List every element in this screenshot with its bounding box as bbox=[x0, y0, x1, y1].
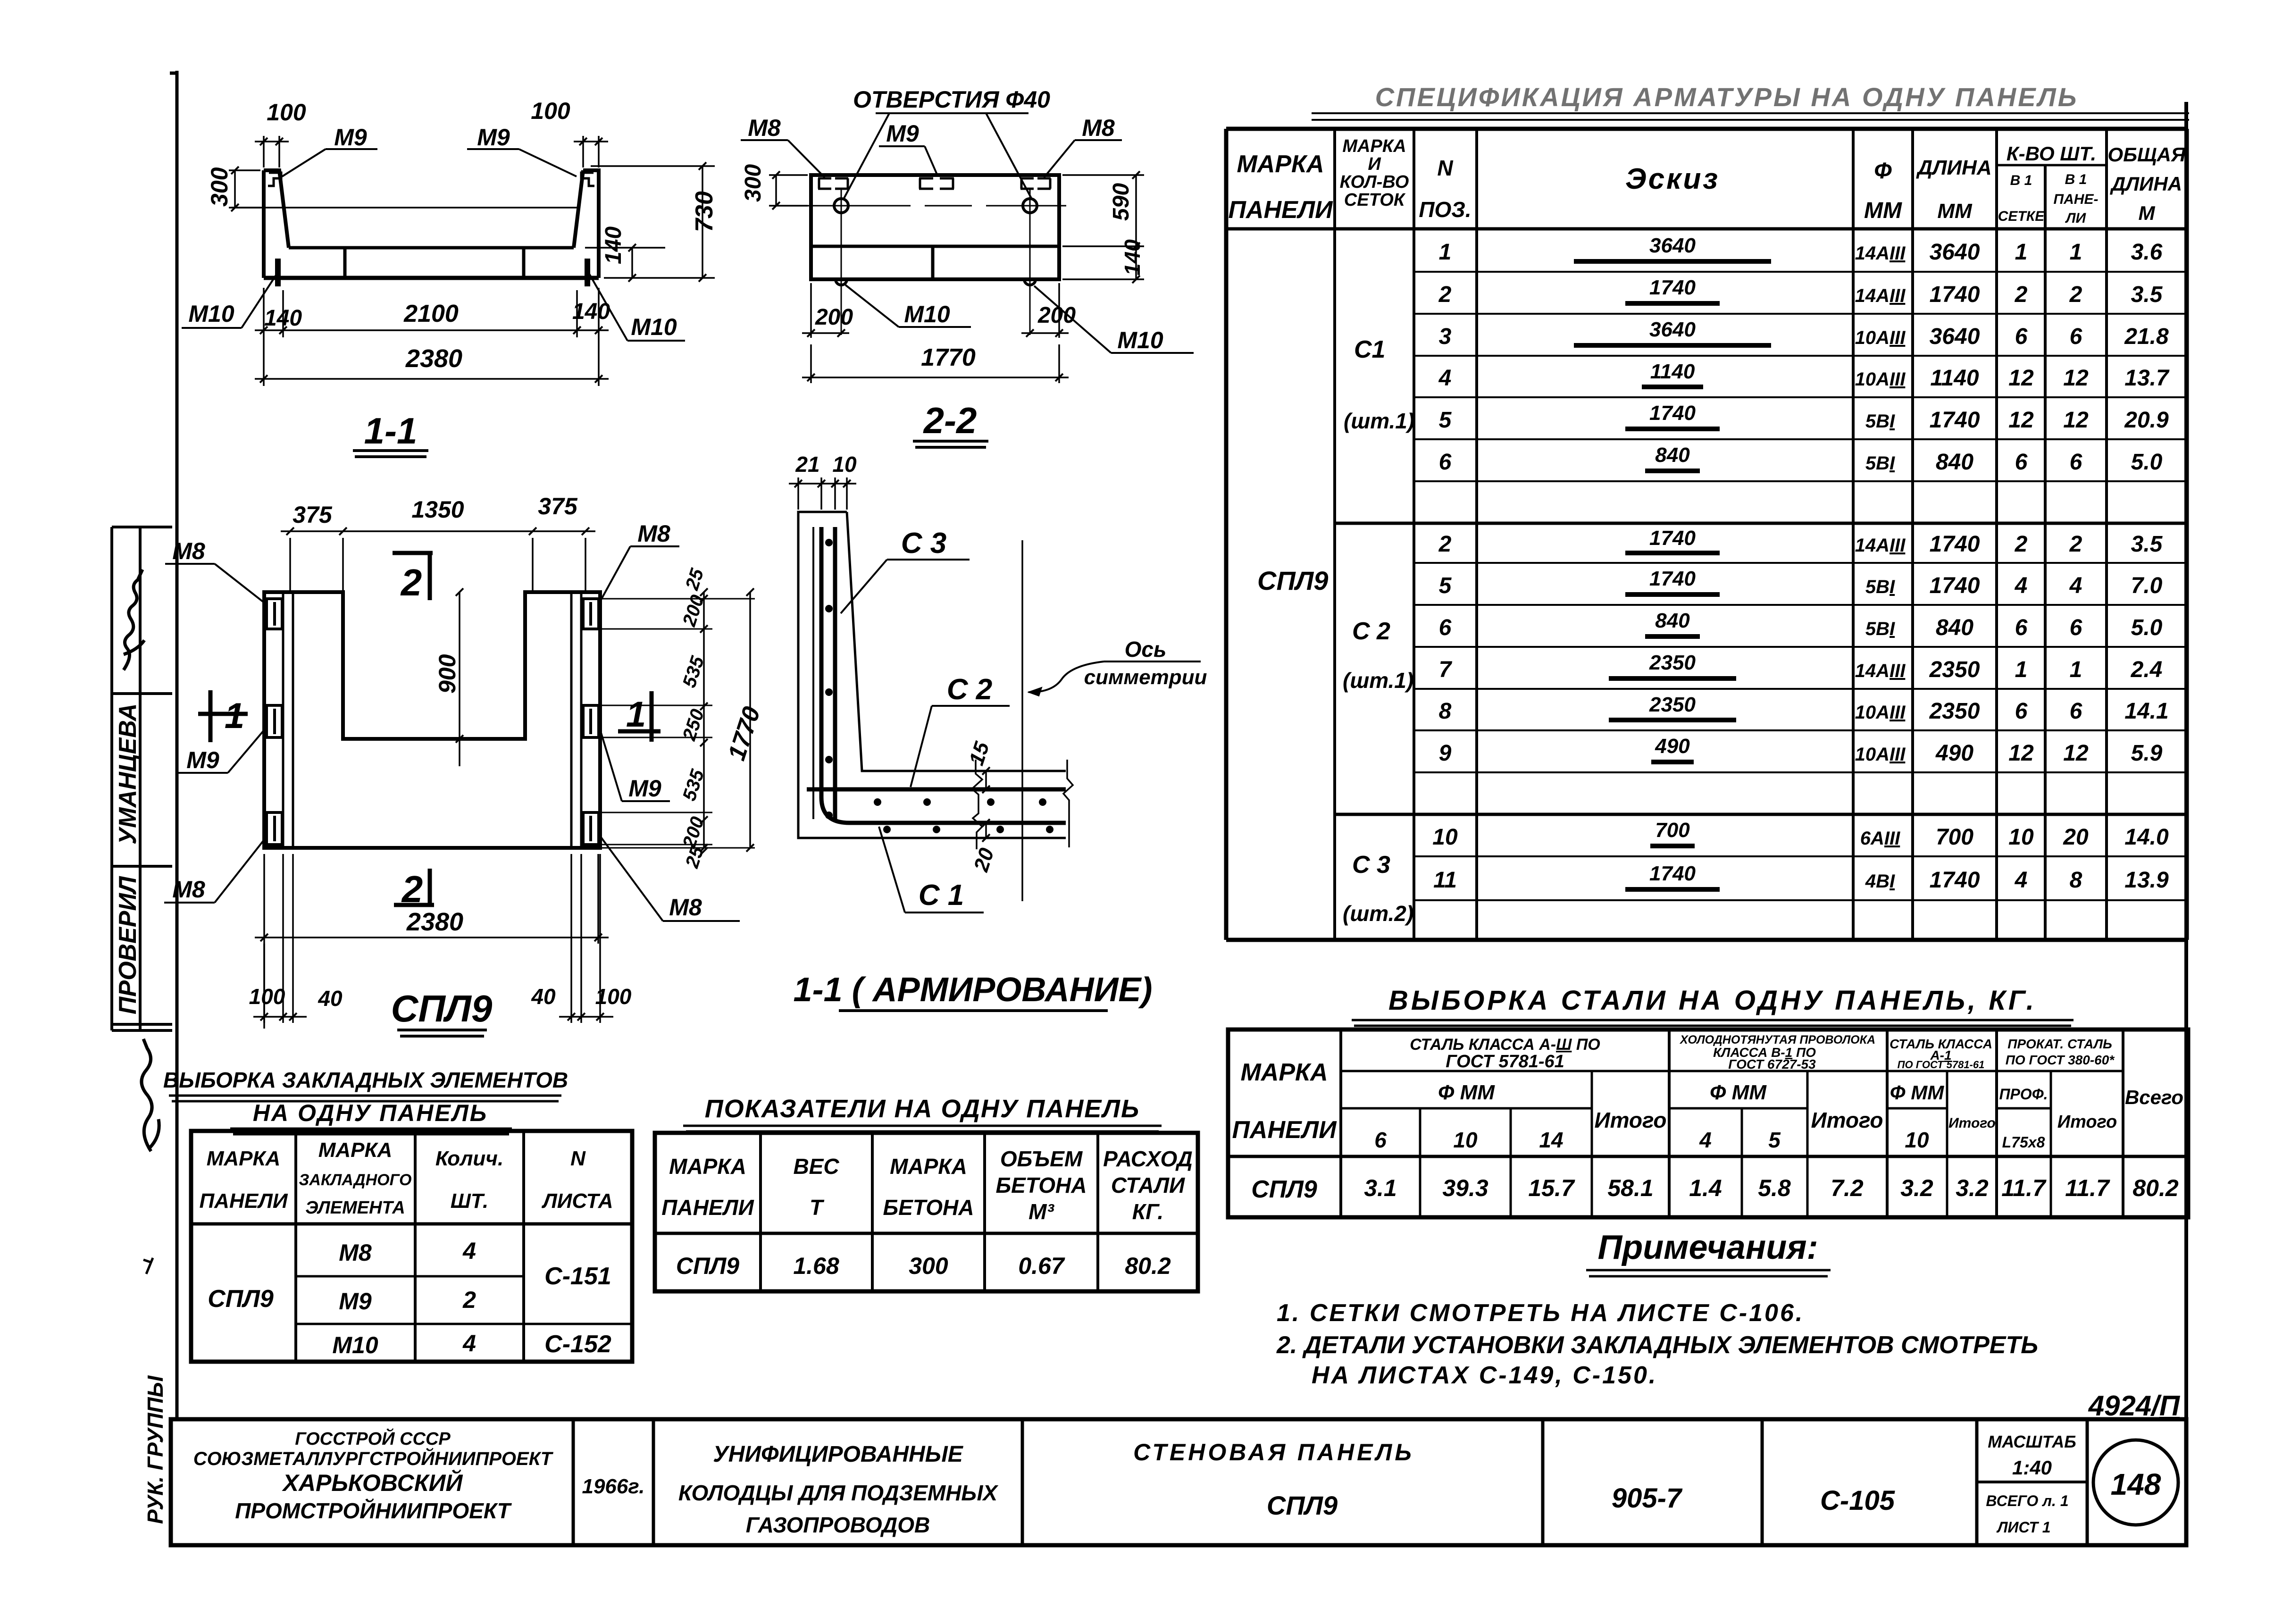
svg-text:1740: 1740 bbox=[1930, 573, 1980, 598]
svg-text:10АIII: 10АIII bbox=[1855, 702, 1906, 723]
svg-text:Ф ММ: Ф ММ bbox=[1438, 1081, 1495, 1104]
svg-text:10АIII: 10АIII bbox=[1855, 369, 1906, 390]
dimension 2380 plan bbox=[255, 854, 609, 1029]
svg-text:3.2: 3.2 bbox=[1956, 1175, 1989, 1201]
dimension 1770 2-2 bbox=[802, 344, 1069, 383]
node mesh dots slab top bbox=[874, 798, 1046, 806]
svg-text:2100: 2100 bbox=[403, 300, 459, 327]
node M9 plate top-mid dashed bbox=[919, 178, 954, 189]
svg-text:М10: М10 bbox=[1117, 327, 1163, 353]
svg-text:1:40: 1:40 bbox=[2012, 1457, 2052, 1479]
node hole right F40 bbox=[1023, 199, 1037, 213]
dimension 200 right 2-2 bbox=[1021, 283, 1069, 338]
svg-text:ПРОКАТ. СТАЛЬ: ПРОКАТ. СТАЛЬ bbox=[2007, 1037, 2112, 1051]
svg-text:2: 2 bbox=[400, 561, 422, 603]
svg-text:2: 2 bbox=[2069, 532, 2082, 557]
svg-text:НА ОДНУ ПАНЕЛЬ: НА ОДНУ ПАНЕЛЬ bbox=[253, 1100, 488, 1126]
svg-text:ПОКАЗАТЕЛИ НА ОДНУ ПАНЕЛЬ: ПОКАЗАТЕЛИ НА ОДНУ ПАНЕЛЬ bbox=[705, 1095, 1140, 1123]
svg-text:БЕТОНА: БЕТОНА bbox=[883, 1195, 974, 1220]
svg-text:5ВI: 5ВI bbox=[1865, 453, 1895, 474]
svg-text:2: 2 bbox=[401, 868, 423, 910]
dimension 1770 plan bbox=[749, 592, 751, 848]
svg-text:1: 1 bbox=[626, 695, 646, 735]
svg-text:840: 840 bbox=[1655, 444, 1690, 467]
svg-text:10: 10 bbox=[1905, 1128, 1929, 1152]
svg-text:ПАНЕ-: ПАНЕ- bbox=[2054, 192, 2099, 207]
svg-text:РУК. ГРУППЫ: РУК. ГРУППЫ bbox=[143, 1375, 167, 1524]
node M10 bump right bbox=[1024, 279, 1036, 285]
node section mark 1 right bbox=[618, 729, 661, 734]
svg-text:Итого: Итого bbox=[1811, 1108, 1883, 1132]
node M8 plate top-left dashed bbox=[818, 178, 848, 189]
svg-text:Эскиз: Эскиз bbox=[1625, 163, 1720, 195]
svg-text:ММ: ММ bbox=[1864, 198, 1902, 223]
svg-text:ВСЕГО л. 1: ВСЕГО л. 1 bbox=[1986, 1492, 2068, 1509]
node M10 plate left bbox=[275, 259, 281, 286]
svg-text:ЛИСТА: ЛИСТА bbox=[542, 1189, 613, 1213]
svg-text:М³: М³ bbox=[1028, 1199, 1054, 1224]
svg-text:1966г.: 1966г. bbox=[582, 1475, 644, 1498]
svg-text:15.7: 15.7 bbox=[1528, 1175, 1575, 1201]
svg-text:Всего: Всего bbox=[2125, 1086, 2183, 1108]
svg-text:5.0: 5.0 bbox=[2131, 615, 2163, 640]
svg-text:730: 730 bbox=[691, 191, 718, 232]
svg-text:1: 1 bbox=[2015, 657, 2028, 682]
svg-text:10: 10 bbox=[1432, 825, 1458, 850]
node mesh C3 bar bbox=[833, 527, 837, 819]
svg-text:3640: 3640 bbox=[1649, 318, 1696, 341]
svg-text:7.0: 7.0 bbox=[2131, 573, 2163, 598]
svg-text:С-105: С-105 bbox=[1820, 1485, 1895, 1516]
svg-text:6: 6 bbox=[2015, 450, 2028, 475]
svg-text:490: 490 bbox=[1935, 741, 1973, 766]
dimension 100 right bbox=[574, 136, 608, 167]
svg-text:6: 6 bbox=[2015, 615, 2028, 640]
svg-text:6: 6 bbox=[2070, 324, 2082, 349]
dimension 730 right bbox=[591, 166, 715, 278]
wire slab joint ticks bbox=[345, 249, 524, 276]
node left wall M9 notch bbox=[268, 173, 281, 186]
svg-text:ХОЛОДНОТЯНУТАЯ ПРОВОЛОКА: ХОЛОДНОТЯНУТАЯ ПРОВОЛОКА bbox=[1679, 1033, 1875, 1046]
svg-text:140: 140 bbox=[1120, 239, 1145, 276]
svg-text:СПЛ9: СПЛ9 bbox=[676, 1253, 739, 1279]
svg-text:ЗАКЛАДНОГО: ЗАКЛАДНОГО bbox=[299, 1171, 412, 1189]
wire inner level line 300 bbox=[231, 207, 577, 209]
svg-text:КГ.: КГ. bbox=[1132, 1199, 1163, 1224]
svg-text:ЭЛЕМЕНТА: ЭЛЕМЕНТА bbox=[305, 1198, 405, 1218]
svg-text:12: 12 bbox=[2063, 741, 2089, 766]
svg-text:БЕТОНА: БЕТОНА bbox=[996, 1173, 1087, 1197]
svg-text:ХАРЬКОВСКИЙ: ХАРЬКОВСКИЙ bbox=[282, 1469, 463, 1496]
node embed plate right3 M8 bbox=[583, 812, 599, 845]
svg-text:ПРОФ.: ПРОФ. bbox=[1999, 1086, 2048, 1103]
svg-text:1740: 1740 bbox=[1649, 402, 1696, 425]
dimension 100 left bbox=[255, 136, 289, 167]
svg-text:СПЛ9: СПЛ9 bbox=[1267, 1490, 1338, 1520]
svg-text:УНИФИЦИРОВАННЫЕ: УНИФИЦИРОВАННЫЕ bbox=[713, 1442, 963, 1467]
node section mark 1 left bbox=[198, 712, 248, 716]
svg-text:14.1: 14.1 bbox=[2124, 699, 2168, 724]
svg-text:В 1: В 1 bbox=[2065, 172, 2087, 187]
svg-text:8: 8 bbox=[1439, 699, 1452, 724]
svg-text:13.9: 13.9 bbox=[2124, 868, 2169, 893]
svg-text:3: 3 bbox=[1439, 324, 1452, 349]
svg-text:9: 9 bbox=[1439, 741, 1452, 766]
svg-text:12: 12 bbox=[2008, 408, 2034, 433]
svg-text:300: 300 bbox=[741, 164, 766, 202]
svg-text:14.0: 14.0 bbox=[2124, 825, 2169, 850]
svg-text:300: 300 bbox=[909, 1253, 948, 1279]
svg-text:ДЛИНА: ДЛИНА bbox=[1915, 156, 1991, 179]
svg-text:С 2: С 2 bbox=[947, 673, 992, 706]
svg-text:СЕТКЕ: СЕТКЕ bbox=[1998, 209, 2045, 224]
svg-text:4: 4 bbox=[1699, 1128, 1712, 1152]
svg-text:Итого: Итого bbox=[2057, 1112, 2117, 1132]
svg-text:МАРКА: МАРКА bbox=[1237, 151, 1324, 178]
wire joint tick 2-2 bbox=[931, 247, 935, 278]
svg-text:ВЕС: ВЕС bbox=[793, 1154, 839, 1179]
svg-text:2350: 2350 bbox=[1649, 693, 1696, 716]
svg-text:М9: М9 bbox=[334, 124, 367, 151]
svg-text:ГОСТ 5781-61: ГОСТ 5781-61 bbox=[1446, 1052, 1564, 1072]
svg-text:10: 10 bbox=[2008, 825, 2034, 850]
svg-text:ГАЗОПРОВОДОВ: ГАЗОПРОВОДОВ bbox=[746, 1513, 930, 1537]
svg-text:1.68: 1.68 bbox=[793, 1253, 839, 1279]
node title block grid bbox=[171, 1419, 2186, 1545]
svg-text:М9: М9 bbox=[886, 120, 919, 147]
svg-text:МАРКА: МАРКА bbox=[669, 1154, 746, 1179]
node panel rect 2-2 bbox=[811, 175, 1059, 279]
svg-text:ПО ГОСТ 5781-61: ПО ГОСТ 5781-61 bbox=[1898, 1059, 1985, 1071]
dimension 300 left bbox=[229, 170, 260, 208]
node L outline bbox=[798, 512, 1066, 838]
svg-text:4: 4 bbox=[2069, 573, 2082, 598]
svg-text:14: 14 bbox=[1539, 1128, 1563, 1152]
svg-text:2350: 2350 bbox=[1649, 651, 1696, 674]
dimension 900 bbox=[451, 592, 500, 766]
svg-text:М8: М8 bbox=[748, 115, 781, 141]
wire break mark mid bbox=[972, 760, 982, 849]
svg-text:ПРОВЕРИЛ: ПРОВЕРИЛ bbox=[114, 876, 142, 1014]
svg-text:2: 2 bbox=[1438, 282, 1452, 307]
svg-text:375: 375 bbox=[538, 493, 578, 519]
svg-text:(шт.1): (шт.1) bbox=[1344, 409, 1414, 433]
svg-text:СТАЛЬ КЛАССА А-Ш ПО: СТАЛЬ КЛАССА А-Ш ПО bbox=[1410, 1036, 1600, 1054]
svg-text:14АIII: 14АIII bbox=[1855, 661, 1906, 681]
svg-text:(шт.1): (шт.1) bbox=[1343, 668, 1413, 693]
svg-text:4: 4 bbox=[462, 1238, 476, 1264]
svg-text:12: 12 bbox=[2063, 366, 2089, 391]
svg-text:10: 10 bbox=[832, 452, 857, 477]
svg-text:М9: М9 bbox=[339, 1288, 372, 1314]
svg-text:100: 100 bbox=[595, 984, 632, 1009]
dimension 590-140 right 2-2 bbox=[1062, 175, 1144, 279]
svg-text:700: 700 bbox=[1936, 825, 1973, 850]
svg-text:Итого: Итого bbox=[1948, 1115, 1996, 1131]
svg-text:ПОЗ.: ПОЗ. bbox=[1419, 197, 1471, 222]
svg-text:5.8: 5.8 bbox=[1758, 1175, 1791, 1201]
svg-text:5ВI: 5ВI bbox=[1865, 411, 1895, 432]
svg-text:11.7: 11.7 bbox=[2001, 1175, 2047, 1201]
svg-text:М8: М8 bbox=[172, 538, 205, 564]
node section mark 2 top bbox=[393, 551, 433, 555]
svg-text:5.9: 5.9 bbox=[2131, 741, 2163, 766]
svg-text:ШТ.: ШТ. bbox=[451, 1189, 489, 1213]
svg-text:С 1: С 1 bbox=[919, 879, 964, 912]
svg-text:700: 700 bbox=[1655, 819, 1690, 842]
svg-text:10АIII: 10АIII bbox=[1855, 327, 1906, 348]
svg-text:С1: С1 bbox=[1354, 336, 1385, 363]
wire hole axis right bbox=[1029, 189, 1031, 335]
svg-text:6: 6 bbox=[1374, 1128, 1387, 1152]
svg-text:1140: 1140 bbox=[1650, 360, 1695, 383]
svg-text:М9: М9 bbox=[628, 775, 661, 802]
svg-text:ЛИСТ 1: ЛИСТ 1 bbox=[1996, 1519, 2050, 1536]
svg-text:0.67: 0.67 bbox=[1018, 1253, 1065, 1279]
wire break mark right-end bbox=[1063, 760, 1073, 847]
node steel table grid bbox=[1228, 1030, 2188, 1217]
node embed plate right1 M8 bbox=[583, 599, 599, 629]
svg-text:МАРКА: МАРКА bbox=[318, 1138, 393, 1162]
svg-text:14АIII: 14АIII bbox=[1855, 535, 1906, 556]
svg-text:1770: 1770 bbox=[921, 344, 976, 371]
node hole left F40 bbox=[834, 199, 848, 213]
svg-text:К-ВО ШТ.: К-ВО ШТ. bbox=[2007, 142, 2096, 165]
svg-text:5: 5 bbox=[1439, 573, 1452, 598]
wire hole axis left bbox=[841, 189, 842, 335]
svg-text:1350: 1350 bbox=[411, 496, 464, 523]
svg-text:6: 6 bbox=[2070, 450, 2082, 475]
svg-text:5: 5 bbox=[1439, 408, 1452, 433]
node M10 bump left bbox=[836, 279, 847, 285]
svg-text:М8: М8 bbox=[1082, 115, 1115, 141]
svg-text:6: 6 bbox=[2015, 324, 2028, 349]
svg-text:3640: 3640 bbox=[1930, 324, 1980, 349]
svg-text:840: 840 bbox=[1936, 615, 1973, 640]
svg-text:С-151: С-151 bbox=[544, 1263, 611, 1290]
node right wall M9 notch bbox=[581, 173, 594, 186]
svg-text:1740: 1740 bbox=[1649, 567, 1696, 590]
svg-text:ОБЪЕМ: ОБЪЕМ bbox=[1000, 1147, 1083, 1171]
svg-text:МАРКА: МАРКА bbox=[1342, 136, 1406, 156]
svg-text:3.2: 3.2 bbox=[1900, 1175, 1933, 1201]
svg-text:20.9: 20.9 bbox=[2124, 408, 2169, 433]
svg-text:3.5: 3.5 bbox=[2131, 282, 2163, 307]
svg-text:200: 200 bbox=[815, 305, 853, 330]
svg-text:МАСШТАБ: МАСШТАБ bbox=[1988, 1432, 2076, 1451]
svg-text:3.6: 3.6 bbox=[2131, 240, 2163, 265]
svg-text:ПАНЕЛИ: ПАНЕЛИ bbox=[1232, 1116, 1338, 1144]
svg-text:М9: М9 bbox=[186, 747, 219, 773]
svg-text:2.4: 2.4 bbox=[2131, 657, 2163, 682]
svg-text:10: 10 bbox=[1453, 1128, 1478, 1152]
svg-text:1: 1 bbox=[2015, 240, 2028, 265]
svg-text:ПРОМСТРОЙНИИПРОЕКТ: ПРОМСТРОЙНИИПРОЕКТ bbox=[235, 1498, 512, 1523]
svg-text:М10: М10 bbox=[631, 314, 677, 340]
svg-text:900: 900 bbox=[434, 654, 460, 694]
svg-text:В 1: В 1 bbox=[2010, 173, 2032, 188]
svg-text:М: М bbox=[2139, 202, 2156, 224]
svg-text:1: 1 bbox=[225, 696, 244, 736]
node spec table grid bbox=[1226, 129, 2187, 940]
node embed table grid bbox=[191, 1131, 632, 1362]
svg-text:5.0: 5.0 bbox=[2131, 450, 2163, 475]
wire slab line 2-2 bbox=[811, 245, 1059, 248]
svg-text:11.7: 11.7 bbox=[2065, 1175, 2110, 1201]
svg-text:1740: 1740 bbox=[1930, 868, 1980, 893]
svg-text:1140: 1140 bbox=[1930, 366, 1979, 391]
svg-text:3640: 3640 bbox=[1930, 240, 1980, 265]
svg-text:590: 590 bbox=[1109, 183, 1134, 221]
node mesh dots wall bbox=[825, 539, 833, 819]
svg-text:2: 2 bbox=[1438, 532, 1452, 557]
node left wall outline bbox=[264, 170, 289, 278]
svg-text:КОЛ-ВО: КОЛ-ВО bbox=[1340, 172, 1409, 192]
svg-text:58.1: 58.1 bbox=[1607, 1175, 1653, 1201]
svg-text:4: 4 bbox=[2015, 868, 2028, 893]
node signature Umantseva bbox=[124, 569, 144, 670]
dimension 300 left 2-2 bbox=[769, 175, 808, 206]
svg-text:14АIII: 14АIII bbox=[1855, 243, 1906, 264]
svg-text:1740: 1740 bbox=[1649, 862, 1696, 885]
svg-text:1. СЕТКИ СМОТРЕТЬ НА ЛИСТЕ: 1. СЕТКИ СМОТРЕТЬ НА ЛИСТЕ С-106. bbox=[1277, 1299, 1804, 1327]
svg-text:100: 100 bbox=[531, 98, 570, 124]
node embed plate left1 M8 bbox=[267, 599, 282, 629]
svg-text:2: 2 bbox=[2015, 532, 2028, 557]
svg-text:ГОСТ 6727-53: ГОСТ 6727-53 bbox=[1728, 1057, 1816, 1072]
svg-text:2350: 2350 bbox=[1929, 699, 1980, 724]
node section mark 2 bottom bbox=[394, 903, 434, 907]
svg-text:140: 140 bbox=[264, 306, 302, 331]
svg-text:2350: 2350 bbox=[1929, 657, 1980, 682]
dimension 375-1350-375 top bbox=[281, 531, 595, 592]
svg-text:6: 6 bbox=[2015, 699, 2028, 724]
svg-text:СТАЛИ: СТАЛИ bbox=[1111, 1173, 1185, 1197]
svg-text:ПАНЕЛИ: ПАНЕЛИ bbox=[1229, 196, 1334, 224]
svg-text:1-1 ( АРМИРОВАНИЕ): 1-1 ( АРМИРОВАНИЕ) bbox=[794, 971, 1153, 1009]
node M10 plate right bbox=[585, 259, 590, 286]
dimension 20 bbox=[985, 823, 987, 838]
svg-text:М8: М8 bbox=[339, 1239, 372, 1266]
svg-text:5ВI: 5ВI bbox=[1865, 577, 1895, 597]
svg-text:Итого: Итого bbox=[1595, 1108, 1667, 1132]
svg-text:КОЛОДЦЫ ДЛЯ ПОДЗЕМНЫХ: КОЛОДЦЫ ДЛЯ ПОДЗЕМНЫХ bbox=[678, 1481, 999, 1505]
svg-text:М10: М10 bbox=[332, 1332, 378, 1358]
node mesh C1 bar bbox=[821, 527, 1066, 823]
svg-text:11: 11 bbox=[1433, 868, 1457, 893]
svg-text:РАСХОД: РАСХОД bbox=[1103, 1147, 1193, 1171]
wire center line holes bbox=[802, 205, 1066, 207]
svg-text:СПЛ9: СПЛ9 bbox=[1251, 1176, 1317, 1203]
svg-text:13.7: 13.7 bbox=[2124, 366, 2170, 391]
node mesh C3 chord bbox=[812, 527, 814, 819]
svg-text:С 2: С 2 bbox=[1352, 618, 1390, 645]
svg-text:3.5: 3.5 bbox=[2131, 532, 2163, 557]
dimension 140-2100-140 bbox=[255, 288, 609, 337]
svg-text:4ВI: 4ВI bbox=[1865, 871, 1895, 892]
svg-text:6: 6 bbox=[2070, 699, 2082, 724]
svg-text:ОТВЕРСТИЯ Ф40: ОТВЕРСТИЯ Ф40 bbox=[853, 86, 1050, 113]
svg-text:7: 7 bbox=[1439, 657, 1453, 682]
svg-text:840: 840 bbox=[1936, 450, 1973, 475]
svg-text:100: 100 bbox=[249, 984, 285, 1009]
svg-text:Ф ММ: Ф ММ bbox=[1710, 1081, 1767, 1104]
svg-text:6: 6 bbox=[1439, 615, 1452, 640]
svg-text:4: 4 bbox=[1438, 366, 1452, 391]
node right wall outline bbox=[574, 170, 599, 278]
svg-text:905-7: 905-7 bbox=[1612, 1483, 1683, 1514]
svg-text:С 3: С 3 bbox=[901, 527, 946, 560]
svg-text:1740: 1740 bbox=[1930, 532, 1980, 557]
svg-text:ПАНЕЛИ: ПАНЕЛИ bbox=[200, 1189, 288, 1213]
node plan outline bbox=[264, 592, 600, 848]
svg-text:М8: М8 bbox=[637, 520, 670, 547]
svg-text:Т: Т bbox=[810, 1195, 825, 1220]
node embed plate left3 M8 bbox=[267, 812, 282, 845]
svg-text:2380: 2380 bbox=[406, 908, 463, 936]
svg-text:1740: 1740 bbox=[1649, 276, 1696, 299]
wire right frame line bbox=[2184, 102, 2188, 1545]
svg-text:М9: М9 bbox=[477, 124, 510, 151]
svg-text:1: 1 bbox=[1439, 240, 1452, 265]
svg-text:1-1: 1-1 bbox=[364, 410, 418, 452]
node M8 plate top-right dashed bbox=[1020, 178, 1051, 189]
svg-text:ЛИ: ЛИ bbox=[2065, 210, 2087, 226]
wire slab top line bbox=[289, 246, 574, 250]
svg-text:НА ЛИСТАХ С-149, С-150.: НА ЛИСТАХ С-149, С-150. bbox=[1312, 1362, 1657, 1389]
node stamp box bbox=[112, 527, 172, 1030]
dimension 15 bbox=[985, 771, 987, 789]
svg-text:N: N bbox=[1437, 156, 1453, 180]
dimension 100-40 bottom-left bbox=[253, 854, 307, 1023]
wire slab bottom line bbox=[264, 276, 599, 280]
svg-text:1: 1 bbox=[2070, 240, 2082, 265]
svg-text:12: 12 bbox=[2008, 366, 2034, 391]
svg-text:М10: М10 bbox=[188, 301, 234, 327]
svg-text:N: N bbox=[570, 1147, 586, 1170]
svg-text:СПЛ9: СПЛ9 bbox=[208, 1285, 274, 1313]
svg-text:L75x8: L75x8 bbox=[2002, 1134, 2045, 1151]
wire plate extension lines right bbox=[599, 599, 755, 848]
node axis of symmetry line bbox=[1021, 540, 1023, 901]
svg-text:Ф ММ: Ф ММ bbox=[1890, 1081, 1944, 1104]
svg-text:840: 840 bbox=[1655, 609, 1690, 632]
svg-text:12: 12 bbox=[2063, 408, 2089, 433]
wire left wall inner lines bbox=[283, 592, 293, 848]
svg-text:5: 5 bbox=[1768, 1128, 1781, 1152]
wire right wall inner lines bbox=[571, 592, 581, 848]
svg-text:симметрии: симметрии bbox=[1084, 666, 1207, 689]
svg-text:Колич.: Колич. bbox=[435, 1147, 503, 1170]
svg-text:ПАНЕЛИ: ПАНЕЛИ bbox=[661, 1195, 754, 1220]
dimension 2380 bbox=[255, 337, 609, 386]
svg-text:3640: 3640 bbox=[1649, 234, 1696, 257]
svg-text:СЕТОК: СЕТОК bbox=[1344, 190, 1406, 210]
svg-text:2. ДЕТАЛИ УСТАНОВКИ ЗАКЛАДНЫ: 2. ДЕТАЛИ УСТАНОВКИ ЗАКЛАДНЫХ ЭЛЕМЕНТОВ … bbox=[1276, 1331, 2038, 1359]
svg-text:ОБЩАЯ: ОБЩАЯ bbox=[2108, 143, 2186, 166]
svg-text:5ВI: 5ВI bbox=[1865, 619, 1895, 639]
svg-text:2: 2 bbox=[462, 1287, 476, 1313]
svg-text:1.4: 1.4 bbox=[1689, 1175, 1722, 1201]
svg-text:6: 6 bbox=[2070, 615, 2082, 640]
wire left frame line bbox=[170, 71, 178, 1420]
svg-text:СТЕНОВАЯ ПАНЕЛЬ: СТЕНОВАЯ ПАНЕЛЬ bbox=[1133, 1439, 1414, 1465]
svg-text:С 3: С 3 bbox=[1352, 851, 1390, 879]
svg-text:140: 140 bbox=[601, 226, 626, 264]
svg-text:40: 40 bbox=[531, 984, 556, 1009]
svg-text:21.8: 21.8 bbox=[2124, 324, 2169, 349]
svg-text:Ф: Ф bbox=[1874, 159, 1892, 184]
